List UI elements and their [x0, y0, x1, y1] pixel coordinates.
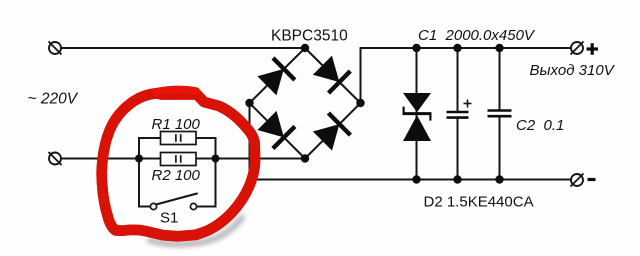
wire top rail left [61, 47, 305, 49]
wire top rail right [361, 47, 572, 49]
wire S1 lever [156, 194, 197, 205]
bridge diode D top-left [257, 58, 294, 96]
minus sign [588, 178, 596, 181]
wire C2 vertical bottom [499, 117, 501, 180]
wire R1 branch [139, 138, 216, 159]
bridge diode D bottom-left [257, 111, 295, 148]
plus sign [587, 43, 599, 55]
svg-text:Выход 310V: Выход 310V [530, 62, 616, 79]
bridge diode D top-right [313, 56, 350, 94]
wire S1 branch left [139, 159, 150, 207]
wire diamond edge L-B [250, 103, 306, 159]
annotation top overlap stroke [156, 90, 196, 92]
terminal output minus [571, 174, 584, 187]
wire bottom rail [250, 179, 572, 181]
annotation red circle [102, 90, 255, 237]
wire diamond edge T-R [305, 48, 361, 103]
wire S1 branch right [197, 159, 216, 207]
svg-text:S1: S1 [160, 210, 178, 227]
resistor R1 [161, 132, 197, 145]
svg-text:KBPC3510: KBPC3510 [271, 28, 348, 45]
wire C2 vertical top [499, 48, 501, 109]
svg-text:R1 100: R1 100 [152, 116, 201, 133]
wire C1 vertical top [457, 48, 459, 111]
svg-text:C1 2000.0x450V: C1 2000.0x450V [418, 27, 536, 44]
terminal output plus [571, 42, 584, 55]
svg-text:R2 100: R2 100 [152, 167, 201, 184]
wire left-vertex drop [249, 103, 251, 180]
wire bottom input [61, 158, 305, 160]
switch S1 contacts [150, 203, 196, 209]
annotation shadow [150, 218, 242, 245]
terminal input top [49, 42, 62, 55]
wire diamond edge T-L [250, 48, 306, 103]
capacitor C2 plates [488, 111, 512, 117]
bridge diode D bottom-right [313, 113, 351, 151]
svg-text:C2 0.1: C2 0.1 [516, 117, 564, 134]
terminal input bottom [49, 152, 62, 165]
svg-text:~ 220V: ~ 220V [28, 90, 79, 107]
svg-text:D2 1.5KE440CA: D2 1.5KE440CA [424, 194, 534, 211]
resistor R2 [161, 153, 197, 166]
C1 polarity plus [464, 100, 472, 108]
TVS diode D2 [403, 93, 432, 141]
wire C1 vertical bottom [457, 118, 459, 180]
wire D2 vertical [416, 48, 418, 180]
wire diamond edge B-R [305, 103, 361, 159]
wire right-vertex riser [360, 48, 362, 103]
capacitor C1 plates [447, 112, 469, 118]
